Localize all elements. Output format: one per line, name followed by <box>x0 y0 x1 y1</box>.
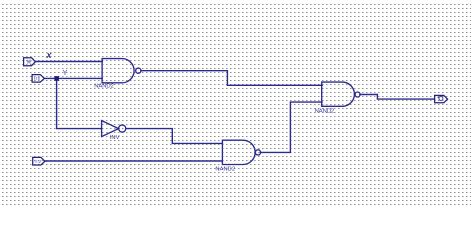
svg-text:NAND2: NAND2 <box>315 109 335 115</box>
svg-text:Y: Y <box>63 70 68 77</box>
svg-text:INV: INV <box>110 135 120 141</box>
svg-text:NAND2: NAND2 <box>94 84 114 90</box>
svg-text:X: X <box>45 51 52 60</box>
svg-text:NAND2: NAND2 <box>215 167 235 173</box>
